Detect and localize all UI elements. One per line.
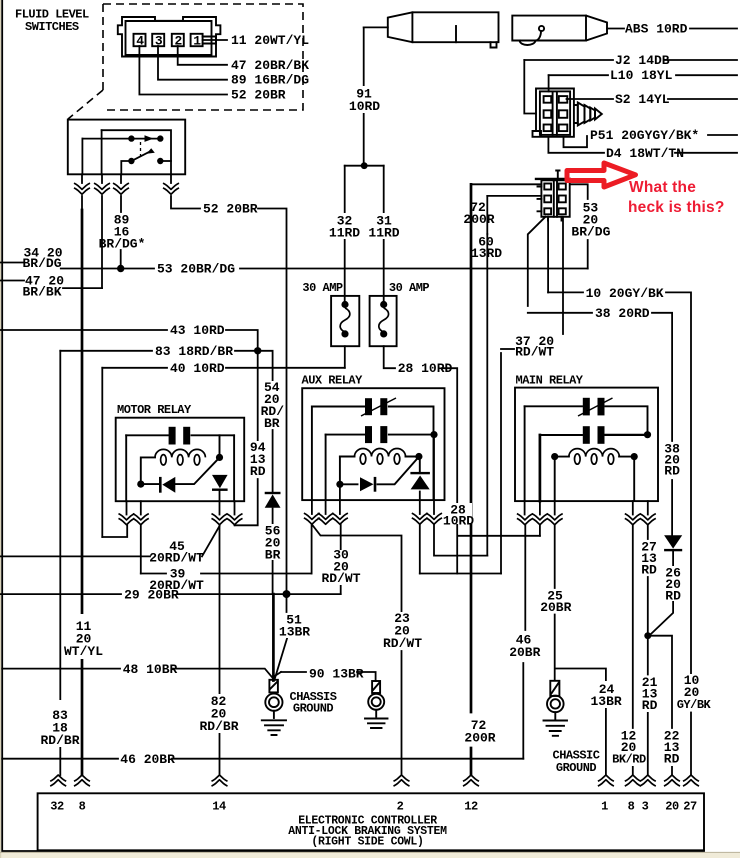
svg-text:47 20BR/BK: 47 20BR/BK (231, 58, 309, 73)
svg-text:3: 3 (155, 34, 163, 49)
svg-text:43 10RD: 43 10RD (170, 323, 225, 338)
svg-text:GY/BK: GY/BK (677, 698, 712, 712)
svg-text:1: 1 (193, 34, 201, 49)
svg-text:2: 2 (397, 800, 404, 814)
svg-text:13BR: 13BR (590, 694, 621, 709)
svg-text:BR/DG*: BR/DG* (99, 237, 146, 252)
svg-text:52 20BR: 52 20BR (203, 202, 258, 217)
svg-text:13RD: 13RD (471, 246, 502, 261)
svg-text:4: 4 (136, 34, 144, 49)
svg-text:10RD: 10RD (349, 99, 380, 114)
svg-text:RD: RD (250, 464, 266, 479)
svg-text:20BR: 20BR (509, 645, 540, 660)
svg-text:BR: BR (265, 548, 281, 563)
svg-text:20: 20 (665, 800, 679, 814)
svg-text:52 20BR: 52 20BR (231, 88, 286, 103)
svg-text:L10 18YL: L10 18YL (610, 68, 673, 83)
svg-text:89 16BR/DG: 89 16BR/DG (231, 73, 309, 88)
svg-text:200R: 200R (464, 731, 495, 746)
svg-text:20BR: 20BR (540, 600, 571, 615)
svg-text:12: 12 (464, 800, 478, 814)
svg-text:WT/YL: WT/YL (64, 644, 103, 659)
svg-text:RD/BR: RD/BR (40, 733, 79, 748)
svg-text:MOTOR RELAY: MOTOR RELAY (117, 403, 192, 417)
svg-text:40 10RD: 40 10RD (170, 361, 225, 376)
svg-text:90 13BR: 90 13BR (309, 667, 364, 682)
svg-text:RD/WT: RD/WT (515, 345, 554, 360)
svg-text:11 20WT/YL: 11 20WT/YL (231, 33, 309, 48)
svg-text:RD: RD (665, 589, 681, 604)
svg-text:RD: RD (664, 752, 680, 767)
svg-text:RD: RD (664, 464, 680, 479)
svg-text:(RIGHT SIDE COWL): (RIGHT SIDE COWL) (311, 836, 423, 849)
svg-text:46 20BR: 46 20BR (120, 752, 175, 767)
svg-text:8: 8 (79, 800, 86, 814)
svg-text:10RD: 10RD (443, 514, 474, 529)
svg-text:GROUND: GROUND (556, 761, 597, 775)
svg-text:What the: What the (629, 179, 696, 196)
svg-text:200R: 200R (463, 212, 494, 227)
svg-text:13BR: 13BR (279, 625, 310, 640)
svg-text:30 AMP: 30 AMP (302, 281, 343, 295)
svg-text:RD/BR: RD/BR (199, 719, 238, 734)
svg-text:BR: BR (264, 416, 280, 431)
svg-text:48 10BR: 48 10BR (123, 662, 178, 677)
svg-text:28 10RD: 28 10RD (398, 361, 453, 376)
svg-text:53 20BR/DG: 53 20BR/DG (157, 262, 235, 277)
svg-text:GROUND: GROUND (293, 702, 334, 716)
svg-text:S2 14YL: S2 14YL (615, 92, 670, 107)
svg-text:20RD/WT: 20RD/WT (149, 551, 204, 566)
svg-text:RD: RD (642, 698, 658, 713)
svg-text:11RD: 11RD (329, 226, 360, 241)
svg-text:J2 14DB: J2 14DB (615, 53, 670, 68)
svg-text:BR/BK: BR/BK (22, 285, 61, 300)
svg-text:14: 14 (212, 800, 226, 814)
svg-text:3: 3 (642, 800, 649, 814)
svg-text:32: 32 (50, 800, 64, 814)
svg-text:1: 1 (601, 800, 608, 814)
svg-text:8: 8 (628, 800, 635, 814)
svg-text:83 18RD/BR: 83 18RD/BR (155, 344, 233, 359)
svg-text:38 20RD: 38 20RD (595, 306, 650, 321)
svg-text:AUX RELAY: AUX RELAY (302, 374, 364, 388)
svg-text:ABS 10RD: ABS 10RD (625, 22, 688, 37)
svg-text:heck is this?: heck is this? (628, 199, 725, 216)
svg-text:11RD: 11RD (368, 226, 399, 241)
svg-text:29 20BR: 29 20BR (124, 587, 179, 602)
svg-text:MAIN RELAY: MAIN RELAY (516, 374, 584, 388)
svg-text:27: 27 (683, 800, 697, 814)
svg-text:D4 18WT/TN: D4 18WT/TN (606, 146, 684, 161)
svg-text:RD/WT: RD/WT (383, 636, 422, 651)
svg-text:SWITCHES: SWITCHES (25, 20, 79, 34)
svg-text:BR/DG: BR/DG (571, 225, 610, 240)
svg-text:30 AMP: 30 AMP (389, 281, 430, 295)
svg-text:BK/RD: BK/RD (612, 753, 646, 767)
svg-text:RD: RD (641, 563, 657, 578)
svg-text:2: 2 (175, 34, 183, 49)
svg-text:10 20GY/BK: 10 20GY/BK (586, 286, 664, 301)
svg-text:P51 20GYGY/BK*: P51 20GYGY/BK* (590, 128, 699, 143)
svg-text:BR/DG: BR/DG (22, 256, 61, 271)
svg-text:RD/WT: RD/WT (321, 571, 360, 586)
